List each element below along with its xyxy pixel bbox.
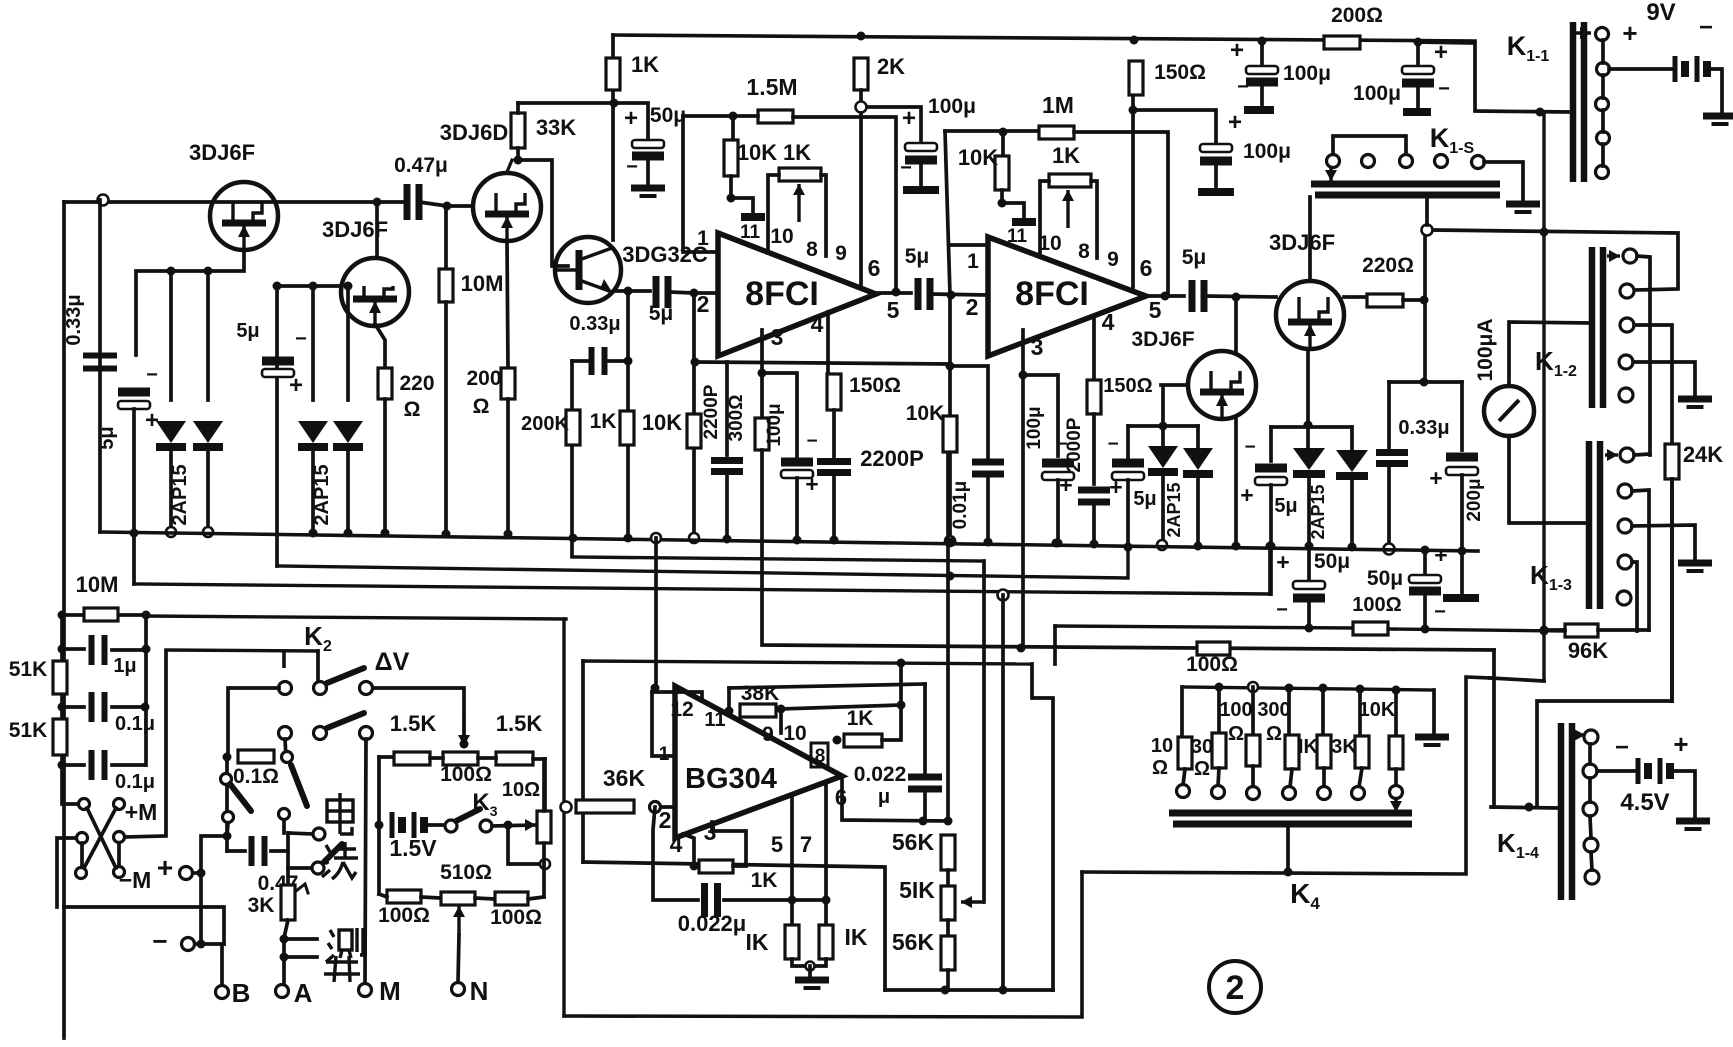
- svg-text:3K: 3K: [248, 894, 275, 917]
- label 200u: [1464, 478, 1485, 521]
- junction 0.47 node: [223, 832, 232, 841]
- wire 5u st2 to FET3: [1205, 296, 1276, 297]
- wire bg bottom rail: [885, 988, 1053, 992]
- wire K1-2 c1 down: [1637, 256, 1650, 455]
- label pin3 st1: [771, 324, 784, 350]
- wire FET3 source down: [1306, 349, 1310, 425]
- label 1K K4: [1298, 736, 1319, 758]
- svg-text:1K: 1K: [751, 869, 778, 892]
- wire C2 to ground bus: [132, 409, 136, 584]
- label K2: [304, 621, 332, 655]
- wire 1M left: [945, 129, 1039, 133]
- battery 9V: [1675, 56, 1707, 82]
- capacitor 5u C3 electrolytic: [262, 357, 294, 378]
- wire to 100u-c: [1133, 110, 1216, 144]
- svg-text:1.5K: 1.5K: [390, 711, 437, 736]
- wire chain right: [144, 615, 148, 765]
- svg-text:3DJ6F: 3DJ6F: [1269, 230, 1335, 255]
- contact K1-4 c3: [1583, 802, 1597, 816]
- wire X cross b: [84, 808, 116, 868]
- wire 3K top riser: [286, 833, 290, 868]
- label pin12: [670, 698, 693, 721]
- wire 10M link: [62, 613, 146, 617]
- wire battery to switch: [424, 823, 445, 827]
- wire K1-4 c2-c3: [1588, 778, 1592, 802]
- svg-text:150Ω: 150Ω: [1103, 375, 1152, 397]
- resistor 1K bg2: [699, 860, 733, 873]
- resistor 1M feedback st2: [1039, 126, 1074, 139]
- svg-text:100μ: 100μ: [1283, 62, 1331, 85]
- label 3K: [248, 894, 275, 917]
- wire K2 rail: [166, 650, 318, 651]
- junction bus 100u-a: [1258, 37, 1267, 46]
- label dian (Chinese): [327, 793, 353, 834]
- node 2K junction: [856, 102, 867, 113]
- node 200 bus: [504, 530, 513, 539]
- wire Q1 emitter out: [614, 289, 650, 293]
- label 9V: [1646, 0, 1675, 26]
- capacitor 2200P-2 st1: [817, 462, 851, 473]
- label pin8 bg: [815, 746, 826, 767]
- junction 56K bottom: [941, 986, 950, 995]
- wire 1K node to rail6: [899, 663, 903, 705]
- resistor 10K st2: [995, 156, 1009, 190]
- label 30 ohm K4: [1194, 758, 1210, 780]
- wire pin12 bracket left: [652, 692, 675, 756]
- node D7 bus: [1348, 543, 1357, 552]
- resistor 56K b: [941, 936, 955, 970]
- wire 33K top: [516, 103, 520, 113]
- wire FET4 gate: [1161, 383, 1188, 387]
- wire bridge top m2: [478, 756, 496, 760]
- wire D2 anode: [206, 271, 210, 400]
- svg-text:−: −: [295, 328, 307, 350]
- wire K4 r2 lead: [1217, 687, 1221, 733]
- label minus 4.5V: [1615, 734, 1629, 761]
- label 100u st2 lower: [1024, 406, 1045, 449]
- wire deltaV arrow: [458, 715, 470, 746]
- wire 33K to Q1 base: [518, 148, 568, 266]
- label 1.5K b: [496, 711, 543, 736]
- wire ground stem bg: [808, 966, 812, 977]
- wire 0.022 bottom: [923, 790, 927, 821]
- label A: [294, 978, 313, 1008]
- svg-text:1K: 1K: [847, 707, 874, 730]
- wire bus4 right riser: [1268, 546, 1272, 594]
- transistor FET3 3DJ6F: [1276, 281, 1344, 349]
- wire 0.022 top: [923, 684, 927, 772]
- contact K1-1 c4: [1597, 132, 1610, 145]
- ground K1-2 c4: [1678, 399, 1712, 407]
- svg-text:100Ω: 100Ω: [1186, 653, 1238, 676]
- wire K1-4 c3-c4: [1590, 816, 1591, 838]
- label 51K a: [9, 658, 48, 681]
- svg-text:100Ω: 100Ω: [440, 763, 492, 786]
- svg-text:0.1μ: 0.1μ: [115, 713, 155, 735]
- wire feedback right st1: [793, 117, 896, 290]
- ground BG304: [795, 980, 829, 988]
- svg-text:2: 2: [966, 294, 979, 320]
- capacitor 5u-e: [1255, 464, 1287, 486]
- resistor 100 ohm bridge: [443, 752, 478, 765]
- junction chain bus1: [948, 538, 957, 547]
- svg-text:24K: 24K: [1683, 442, 1723, 467]
- label plus 50u-2: [1434, 542, 1447, 568]
- label 200K: [521, 413, 569, 435]
- wire K1-4 c4-c5: [1591, 852, 1592, 870]
- junction bus 2K: [857, 32, 866, 41]
- wire deltaV right: [373, 688, 464, 738]
- wire T2 gate: [277, 284, 341, 288]
- wire 0.47 lead r: [271, 849, 288, 853]
- label 8FC1 st1: [745, 275, 819, 313]
- wire chain to rail: [946, 970, 950, 990]
- label plus 100u st2: [1059, 472, 1072, 498]
- transistor T2 3DJ6F: [341, 258, 409, 326]
- svg-text:0.01μ: 0.01μ: [950, 481, 971, 530]
- wire 0.33u left lead: [572, 359, 589, 363]
- label 0.01u: [950, 481, 971, 530]
- wire pin1 feed st1: [683, 116, 716, 252]
- label 3DJ6F FET4: [1131, 328, 1194, 351]
- wire K1-4 wiper arrow: [1574, 729, 1585, 741]
- label 5u C6: [649, 302, 674, 325]
- junction K4 r2: [1215, 683, 1224, 692]
- svg-text:Ω: Ω: [473, 395, 490, 418]
- resistor 51K b: [53, 719, 67, 755]
- wire T2 source to 220: [375, 324, 385, 368]
- wire K1-3 c4 down: [1632, 562, 1637, 631]
- wire D1 cathode to bus: [169, 447, 173, 532]
- label pin11 st1: [740, 222, 761, 243]
- wire 0.47u to T3 gate: [419, 202, 472, 206]
- label 10ohm K3: [502, 779, 540, 801]
- wire pin4 st2 down: [1092, 318, 1096, 380]
- node 5u-e bus: [1267, 542, 1276, 551]
- wire 24K down: [1670, 479, 1674, 701]
- label -M: [119, 867, 152, 893]
- label 100u-a: [1283, 62, 1331, 85]
- svg-text:A: A: [294, 978, 313, 1008]
- label minus 100u st2: [1056, 434, 1067, 455]
- node 100u st2 bus1: [1052, 539, 1061, 548]
- svg-text:2K: 2K: [877, 54, 905, 79]
- ground bus right: [1443, 594, 1479, 602]
- wire pin3 st1 down: [760, 330, 764, 418]
- label jing (Chinese): [324, 956, 360, 982]
- contact dian b: [312, 862, 324, 874]
- wire chain vertical upper: [946, 455, 950, 821]
- wire pin4 lead: [683, 834, 694, 866]
- capacitor 0.1u-1: [92, 692, 105, 722]
- contact K1-3 c2: [1618, 484, 1632, 498]
- svg-text:+: +: [1673, 729, 1688, 759]
- node 10K st2 bus: [945, 536, 955, 546]
- wire 10M top lead: [444, 206, 448, 269]
- node 2200P-1 bus: [723, 535, 732, 544]
- wire 0.01u bottom: [986, 476, 990, 542]
- wire K1S bracket: [1333, 136, 1406, 154]
- resistor 10M gate: [439, 269, 453, 302]
- junction T2 gate node: [273, 282, 282, 291]
- label pin1 bg: [659, 744, 670, 765]
- wire battery 9V right: [1707, 69, 1722, 113]
- label +M: [125, 799, 158, 825]
- wire 10M to bus: [444, 302, 448, 534]
- svg-text:3DJ6D: 3DJ6D: [440, 120, 508, 145]
- wire N line: [458, 935, 459, 982]
- wire plus riser: [201, 836, 227, 944]
- junction 0.1u-1 left: [58, 703, 67, 712]
- lever K2 right: [291, 765, 307, 806]
- label pin2 st2: [966, 294, 979, 320]
- wire pin11 stub st2: [1002, 203, 1024, 219]
- wire 100u st2 top: [1023, 375, 1058, 456]
- label 220: [399, 372, 434, 395]
- svg-text:51K: 51K: [9, 719, 48, 742]
- node BG304 pin12 bus: [651, 533, 661, 543]
- svg-text:M: M: [379, 976, 401, 1006]
- label 2AP15 D3D4: [311, 464, 333, 525]
- label 1.5M: [746, 74, 797, 100]
- label mu 0.022: [878, 786, 890, 808]
- svg-text:150Ω: 150Ω: [1154, 61, 1206, 84]
- wire pin5 down: [790, 797, 794, 925]
- svg-text:N: N: [470, 976, 489, 1006]
- svg-text:0.33μ: 0.33μ: [1398, 417, 1449, 439]
- label 100ohm bridge: [440, 763, 492, 786]
- wire D1 anode: [169, 271, 173, 400]
- label 51K b: [9, 719, 48, 742]
- capacitor 1u: [92, 635, 105, 665]
- label 220ohm out: [1362, 254, 1414, 277]
- ground K1-3 c3: [1678, 563, 1712, 571]
- svg-text:0.47μ: 0.47μ: [394, 154, 448, 177]
- label pin9 bg: [762, 723, 774, 746]
- capacitor 100u st1: [905, 143, 937, 165]
- label 5u-d: [1133, 488, 1156, 510]
- contact K1-4 c2: [1583, 764, 1597, 778]
- op-amp U1 8FC1: [718, 233, 876, 356]
- svg-text:100Ω: 100Ω: [490, 906, 542, 929]
- node D5b bus: [1194, 542, 1203, 551]
- diode D5a 2AP15: [1148, 446, 1178, 472]
- label pin7 bg: [800, 832, 812, 857]
- svg-text:2AP15: 2AP15: [1308, 484, 1328, 539]
- wire K4 r1 lead: [1180, 687, 1184, 737]
- svg-text:6: 6: [1140, 255, 1153, 281]
- wire K1-4 feed: [1491, 807, 1558, 808]
- resistor 300 ohm K4: [1285, 735, 1299, 769]
- diode D1 2AP15: [156, 421, 186, 447]
- label 2AP15 D1D2: [169, 464, 191, 525]
- svg-text:+: +: [289, 372, 303, 399]
- svg-text:50μ: 50μ: [650, 104, 686, 127]
- contact K1S c2: [1362, 155, 1375, 168]
- wire 100u st1 top: [762, 373, 797, 456]
- label minus 5u-d: [1107, 434, 1118, 455]
- junction border 10M: [58, 611, 67, 620]
- label 2000P: [1064, 417, 1085, 472]
- wire D4 anode: [346, 286, 350, 400]
- junction rail4 supply: [1540, 627, 1549, 636]
- contact K1-1 c5: [1596, 166, 1609, 179]
- junction diode D2 top: [204, 267, 213, 276]
- svg-text:200K: 200K: [521, 413, 569, 435]
- junction 10M right: [142, 611, 151, 620]
- label 1K pot st2: [1052, 143, 1080, 168]
- wire K1-1 wiper arrow: [1570, 27, 1591, 39]
- svg-text:IK: IK: [1298, 736, 1319, 758]
- svg-text:100μ: 100μ: [764, 403, 785, 446]
- label pin10 bg: [783, 722, 806, 745]
- svg-text:1: 1: [967, 250, 979, 273]
- label 0.33u out: [1398, 417, 1449, 439]
- capacitor 100u-c st2: [1200, 144, 1232, 166]
- wire K1-4 c1-c2: [1588, 744, 1592, 764]
- junction 1K bottom: [610, 99, 619, 108]
- contact K1-2 c4: [1619, 355, 1633, 369]
- diode D7 2AP15: [1336, 450, 1368, 476]
- capacitor 0.1u-2: [92, 750, 105, 780]
- wire X c4-c6: [117, 843, 121, 866]
- wire K1S c5 to ground: [1484, 162, 1523, 200]
- wire bridge top m1: [430, 756, 443, 760]
- label 3DJ6F T1: [189, 140, 255, 165]
- svg-text:IK: IK: [746, 929, 769, 955]
- label K4: [1290, 878, 1320, 913]
- svg-text:1K: 1K: [590, 410, 617, 433]
- node 50u-1 rail4: [1305, 624, 1314, 633]
- svg-text:56K: 56K: [892, 929, 935, 955]
- label ce (Chinese): [326, 928, 363, 962]
- resistor 100 ohm bl: [387, 890, 421, 903]
- wire K1-2 c3 to 24K: [1634, 325, 1672, 444]
- svg-text:200: 200: [466, 367, 501, 390]
- terminal minus: [182, 938, 195, 951]
- junction 0.022-pin6: [919, 817, 928, 826]
- wire feedback right st2: [1074, 132, 1168, 296]
- label 1u: [113, 655, 136, 677]
- wire 2K bottom: [859, 90, 863, 100]
- junction T2 drain on rail: [373, 198, 382, 207]
- svg-text:6: 6: [868, 255, 881, 281]
- wire 220 to bus: [383, 399, 387, 533]
- label 2K: [877, 54, 905, 79]
- junction 1u left: [58, 645, 67, 654]
- label plus 100u-b: [1434, 39, 1448, 66]
- label 10K st2 lower: [906, 402, 945, 425]
- wire 96K right: [1598, 628, 1649, 632]
- capacitor 5u-d: [1112, 459, 1144, 481]
- node D6 bus: [1305, 542, 1314, 551]
- wire C6 to pin2: [669, 292, 716, 293]
- diode D5b 2AP15: [1183, 448, 1213, 474]
- svg-text:1.5V: 1.5V: [389, 835, 437, 861]
- label pin9 st2: [1107, 248, 1119, 271]
- contact K1-4 c5: [1585, 870, 1599, 884]
- capacitor 200u: [1446, 453, 1478, 476]
- wire pot left st2: [1040, 181, 1049, 256]
- junction K4 r5: [1319, 684, 1328, 693]
- wire D3 anode: [311, 286, 315, 400]
- wire FET4 gate branch down: [1161, 388, 1165, 450]
- wire battery 9V left: [1609, 67, 1675, 71]
- svg-text:10M: 10M: [76, 572, 119, 597]
- contact K4 c4: [1283, 787, 1296, 800]
- label pin1 st2: [967, 250, 979, 273]
- wire K4 r6 lead: [1358, 689, 1362, 736]
- label plus 100u-a: [1230, 37, 1244, 64]
- wire 10K st2 top: [1001, 132, 1005, 156]
- label 300ohm: [726, 395, 747, 442]
- wire 0.1u-1 lead l: [62, 705, 84, 709]
- junction fb output st1: [892, 288, 901, 297]
- label pin5 st2: [1149, 297, 1162, 323]
- resistor 24K: [1665, 444, 1679, 479]
- label 1.5V: [389, 835, 437, 861]
- label 1K gnd b: [845, 924, 868, 950]
- terminal N: [452, 983, 465, 996]
- node 1K ground tap: [806, 962, 815, 971]
- svg-text:0.1μ: 0.1μ: [115, 771, 155, 793]
- junction pin2-rail st1: [691, 358, 700, 367]
- wire 10K st1 bottom: [729, 176, 733, 198]
- wire rail4 left: [1055, 626, 1353, 628]
- label BG304: [685, 763, 777, 795]
- label 100 K4: [1219, 699, 1252, 721]
- wire 24K down long: [1670, 479, 1674, 701]
- label 220 ohm sign: [404, 398, 421, 421]
- junction pin3 node st2: [1019, 371, 1028, 380]
- wire input top rail: [64, 200, 406, 204]
- battery 1.5V: [392, 812, 424, 838]
- junction pin4 node: [690, 862, 699, 871]
- label 33K: [536, 115, 576, 140]
- wire pot to bottom: [542, 843, 546, 897]
- label 100ohm bl: [378, 904, 430, 927]
- label K3: [472, 789, 497, 819]
- wire 1K top rail to Q1 collector: [611, 35, 615, 240]
- resistor 220 ohm out: [1367, 294, 1403, 307]
- node bus3-bus1: [1124, 543, 1133, 552]
- label 2AP15 D6: [1308, 484, 1328, 539]
- ground 100u-b: [1403, 108, 1431, 116]
- svg-text:51K: 51K: [9, 658, 48, 681]
- label 5u out st1: [905, 245, 930, 268]
- wire 1K bg2 to pin3: [712, 822, 746, 866]
- contact K1-3 c1: [1620, 448, 1634, 462]
- resistor 200 ohm supply: [1324, 36, 1360, 49]
- label minus 100u st1 lower: [806, 431, 817, 452]
- svg-text:+: +: [145, 407, 159, 434]
- contact X c1: [79, 799, 90, 810]
- wire 50u-2 top: [1423, 550, 1427, 575]
- junction pin11 st2: [998, 199, 1007, 208]
- capacitor 50u-2: [1409, 575, 1441, 596]
- wire N arrow: [453, 906, 465, 935]
- contact K2 pole1: [314, 682, 327, 695]
- wire D5b bottom: [1196, 474, 1200, 546]
- wire pin4 st1 down: [826, 312, 830, 374]
- battery 4.5V: [1638, 758, 1670, 784]
- svg-text:300: 300: [1257, 699, 1290, 721]
- junction minus riser: [197, 940, 206, 949]
- svg-text:2: 2: [1226, 969, 1245, 1007]
- label 510ohm: [440, 861, 492, 884]
- label 1K supply1: [631, 52, 659, 77]
- label 100ohm rail5: [1186, 653, 1238, 676]
